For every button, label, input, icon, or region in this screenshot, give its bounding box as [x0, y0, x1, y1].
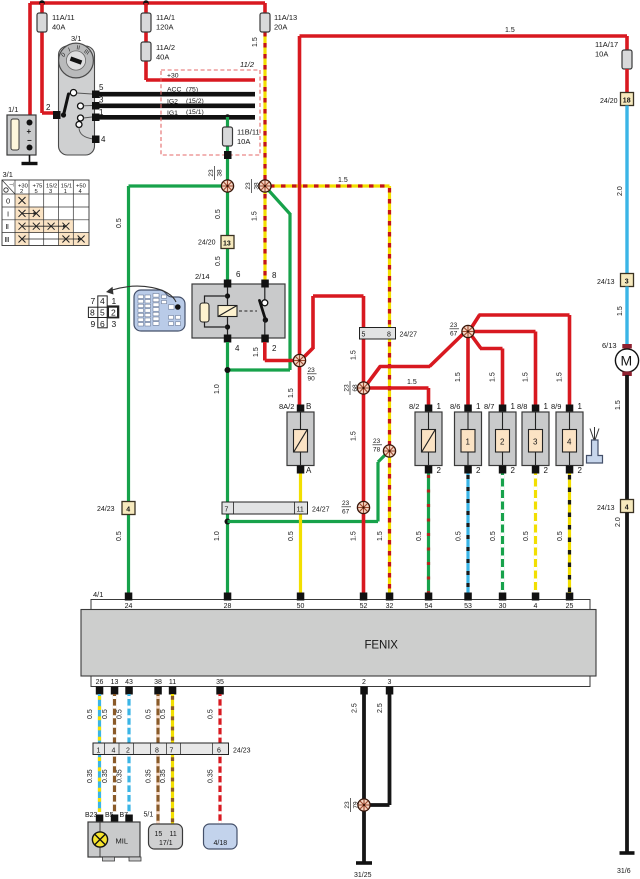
- FENIX bottom pin 43: [125, 679, 133, 695]
- svg-text:3: 3: [625, 279, 629, 286]
- svg-text:2: 2: [126, 748, 130, 755]
- svg-text:0.35: 0.35: [102, 769, 109, 783]
- injector 8/9 cyl 4: [551, 402, 583, 475]
- svg-text:23: 23: [344, 384, 351, 392]
- wire: fuse 11A/17 to connector 24/20-18 (red): [625, 69, 629, 92]
- connector 17/1: [144, 812, 183, 850]
- table 3/1: [2, 170, 89, 246]
- injector 8/6 cyl 1: [450, 402, 482, 475]
- svg-text:2: 2: [111, 308, 116, 318]
- switch pin 5: [92, 83, 104, 98]
- svg-text:13: 13: [223, 241, 231, 248]
- splice 23/38 left: [208, 166, 234, 192]
- fuse box pictogram (relay location): [134, 290, 185, 331]
- svg-text:2.0: 2.0: [615, 517, 622, 527]
- component 4/18: [204, 824, 238, 849]
- svg-text:3/1: 3/1: [71, 34, 81, 43]
- svg-text:68: 68: [352, 384, 359, 392]
- svg-text:23: 23: [342, 500, 350, 507]
- wire: yellow/white stripe injector 8/8 pin2 to FENIX 4: [523, 474, 536, 594]
- svg-text:1: 1: [437, 402, 442, 411]
- wire: red main from rail down to splice 23/90: [298, 36, 302, 355]
- connector 24/20 pin 18: [600, 93, 634, 106]
- svg-text:13: 13: [111, 679, 119, 686]
- svg-text:0.35: 0.35: [87, 769, 94, 783]
- svg-text:1.5: 1.5: [288, 388, 295, 398]
- motor M 6/13: [602, 341, 639, 376]
- svg-text:1: 1: [466, 438, 471, 447]
- wire: green relay pin 4 to FENIX pin 28: [214, 342, 228, 593]
- svg-text:3: 3: [533, 438, 538, 447]
- wire: red splice 23/68 to injector 8/2 pin 1: [370, 379, 429, 405]
- svg-text:35: 35: [216, 679, 224, 686]
- svg-text:11A/17: 11A/17: [595, 40, 618, 49]
- svg-text:1.5: 1.5: [377, 531, 384, 541]
- wire: red relay pin 2 to splice 23/90: [253, 342, 294, 361]
- wire: cyan 2.0 down to 24/13-3: [617, 106, 627, 275]
- svg-text:0.5: 0.5: [523, 531, 530, 541]
- svg-text:1.5: 1.5: [557, 372, 564, 382]
- svg-text:2: 2: [272, 344, 277, 353]
- ground at battery: [22, 155, 38, 164]
- svg-text:1.5: 1.5: [505, 27, 515, 34]
- svg-text:2: 2: [500, 438, 505, 447]
- wire: red/white FENIX 35 to 4/18: [208, 694, 221, 823]
- svg-text:1.5: 1.5: [338, 177, 348, 184]
- svg-text:31/25: 31/25: [354, 872, 372, 879]
- wire: red splice 23/67 branch to injector 8/7: [472, 336, 503, 406]
- switch pin 3: [92, 96, 104, 110]
- svg-text:31/6: 31/6: [617, 868, 631, 875]
- svg-text:8: 8: [90, 308, 95, 318]
- svg-text:1.5: 1.5: [523, 372, 530, 382]
- svg-text:1: 1: [476, 402, 481, 411]
- svg-text:5/1: 5/1: [144, 812, 154, 819]
- svg-text:24/23: 24/23: [97, 506, 115, 513]
- relay pin 4: [224, 335, 240, 354]
- relay internals: coil branch: [200, 287, 257, 335]
- svg-text:3: 3: [112, 319, 117, 329]
- svg-text:⊣: ⊣: [9, 182, 14, 189]
- splice 23/38 right: [245, 179, 271, 193]
- svg-text:10A: 10A: [595, 50, 608, 59]
- svg-text:24/20: 24/20: [600, 98, 618, 105]
- svg-text:6/13: 6/13: [602, 341, 617, 350]
- svg-text:0.5: 0.5: [87, 709, 94, 719]
- svg-text:IG2: IG2: [167, 98, 178, 105]
- svg-text:24/13: 24/13: [597, 279, 615, 286]
- svg-text:3: 3: [99, 96, 104, 105]
- FENIX top pin 53: [464, 593, 472, 611]
- svg-text:43: 43: [125, 679, 133, 686]
- FENIX top pin 54: [425, 593, 433, 611]
- relay pin 8: [261, 271, 277, 288]
- svg-text:4: 4: [625, 505, 629, 512]
- svg-text:III: III: [5, 235, 10, 244]
- relay pin 2: [261, 335, 277, 354]
- svg-text:38: 38: [154, 679, 162, 686]
- wire: red splice 23/68 diagonal to splice 23/67: [368, 334, 464, 384]
- svg-text:53: 53: [464, 603, 472, 610]
- svg-text:79: 79: [353, 801, 360, 809]
- wire: black FENIX 3 to splice 23/79: [370, 694, 390, 805]
- svg-text:54: 54: [425, 603, 433, 610]
- svg-text:2.5: 2.5: [352, 703, 359, 713]
- svg-text:2: 2: [437, 466, 442, 475]
- table X marks row III with link arrow: [19, 236, 85, 243]
- svg-text:38: 38: [254, 182, 261, 190]
- svg-text:26: 26: [96, 679, 104, 686]
- svg-text:3: 3: [388, 679, 392, 686]
- wire: green branch from splice 23/38 to relay output net: [228, 189, 291, 371]
- relay 2/14: [192, 272, 285, 338]
- svg-text:1: 1: [544, 402, 549, 411]
- svg-text:30: 30: [499, 603, 507, 610]
- wire: red connector 5 down to splice 23/68: [351, 339, 364, 383]
- svg-text:11: 11: [169, 679, 176, 686]
- svg-text:2: 2: [362, 679, 366, 686]
- table X marks row I with link arrow: [19, 210, 40, 217]
- svg-text:11A/2: 11A/2: [156, 43, 175, 52]
- svg-text:23: 23: [373, 438, 381, 445]
- ECU 4/1 FENIX: [81, 590, 596, 687]
- svg-text:4/18: 4/18: [214, 840, 228, 847]
- wire: red splice 23/90 down to 8A/2 pin B: [288, 366, 300, 405]
- svg-text:0.5: 0.5: [456, 531, 463, 541]
- wire: green from splice 23/38 to relay pin 6: [215, 192, 228, 280]
- connector 24/23 pin 4 (left green wire): [97, 502, 135, 515]
- FENIX bottom pin 13: [111, 679, 119, 695]
- FENIX top pin 52: [360, 593, 368, 611]
- net label IG1 (15/1): [167, 109, 204, 117]
- svg-text:+: +: [27, 127, 32, 136]
- FENIX bottom pin 3: [386, 679, 394, 695]
- FENIX bottom pin 11: [169, 679, 177, 695]
- svg-text:1.5: 1.5: [351, 350, 358, 360]
- relay location pin grid 7-4-1/8-5-2/9-6-3: [88, 296, 118, 329]
- svg-text:40A: 40A: [52, 23, 65, 32]
- svg-text:8/8: 8/8: [517, 402, 527, 411]
- svg-text:4: 4: [567, 438, 572, 447]
- injector 8/7 cyl 2: [484, 402, 516, 475]
- svg-text:67: 67: [450, 331, 458, 338]
- svg-text:0.35: 0.35: [160, 769, 167, 783]
- FENIX top pin 32: [386, 593, 394, 611]
- svg-text:4: 4: [101, 135, 106, 144]
- svg-text:23: 23: [245, 182, 252, 190]
- svg-text:2.0: 2.0: [617, 186, 624, 196]
- svg-text:8: 8: [272, 271, 277, 280]
- svg-text:17/1: 17/1: [159, 840, 173, 847]
- svg-text:+30: +30: [167, 73, 179, 80]
- svg-text:24/27: 24/27: [400, 332, 418, 339]
- svg-text:2: 2: [20, 189, 23, 195]
- connector 24/13 pin 4: [597, 500, 634, 513]
- svg-text:0.5: 0.5: [208, 709, 215, 719]
- connector stub at dashed box edge: [224, 151, 232, 159]
- wire: red splice 23/67 branch to injector 8/9: [472, 315, 570, 405]
- svg-text:11: 11: [297, 507, 304, 514]
- svg-text:0.5: 0.5: [116, 218, 123, 228]
- svg-text:8/9: 8/9: [551, 402, 561, 411]
- fuse 11A/13 20A: [260, 13, 297, 32]
- svg-text:11A/11: 11A/11: [52, 13, 75, 22]
- wire: yellow/black stripe injector 8/9 pin2 to FENIX 25: [557, 474, 570, 594]
- svg-text:1.5: 1.5: [490, 372, 497, 382]
- FENIX bottom pin 26: [96, 679, 104, 695]
- svg-text:−: −: [27, 136, 32, 145]
- wire: ACC (75) heavy black: [99, 92, 255, 97]
- svg-text:2: 2: [511, 466, 516, 475]
- svg-text:32: 32: [386, 603, 394, 610]
- svg-text:2/14: 2/14: [195, 272, 210, 281]
- wire: IG2 (15/2) heavy black: [99, 104, 255, 109]
- svg-text:4: 4: [112, 748, 116, 755]
- fuse 11A/11 40A: [37, 13, 75, 32]
- wire: yellow/red striped from fuse 11A/13 down to splice: [252, 32, 265, 186]
- svg-text:8A/2: 8A/2: [279, 402, 294, 411]
- svg-text:0.5: 0.5: [117, 709, 124, 719]
- svg-text:2: 2: [476, 466, 481, 475]
- fuse 11A/1 120A: [141, 13, 175, 32]
- switch pin 4: [92, 135, 106, 144]
- svg-text:5: 5: [362, 332, 366, 339]
- svg-text:1: 1: [97, 748, 101, 755]
- svg-text:0.5: 0.5: [102, 709, 109, 719]
- net label IG2 (15/2): [167, 98, 204, 106]
- svg-text:1: 1: [112, 296, 117, 306]
- node: junction green at relay output: [225, 367, 231, 373]
- svg-text:0.5: 0.5: [116, 531, 123, 541]
- wire: green/red stripe injector 8/2 pin2 to FENIX 54: [416, 474, 429, 594]
- table X marks row 0: [19, 197, 26, 204]
- FENIX top pin 28: [224, 593, 232, 611]
- svg-text:23: 23: [450, 322, 458, 329]
- svg-text:1.5: 1.5: [253, 347, 260, 357]
- relay pin 6: [224, 270, 241, 288]
- svg-text:B23: B23: [85, 812, 98, 819]
- MIL lamp symbol: [92, 832, 128, 847]
- svg-text:(15/2): (15/2): [186, 98, 204, 105]
- svg-text:23: 23: [208, 169, 215, 177]
- wire: fuse 11A/1 to fuse 11A/2 to +30 (red): [146, 3, 255, 80]
- FENIX top pin 50: [297, 593, 305, 611]
- wire: yellow/red striped splice to FENIX pin 32 (horizontal): [268, 177, 390, 186]
- splice 23/67 lower: [342, 500, 370, 516]
- svg-text:A: A: [306, 466, 312, 475]
- svg-text:ACC: ACC: [167, 87, 181, 94]
- injector 8/8 cyl 3: [517, 402, 549, 475]
- wire: green junction to splice 23/78: [228, 453, 388, 522]
- svg-text:52: 52: [360, 603, 368, 610]
- wire: yellow/red striped down to FENIX 32 through splice 23/78: [377, 186, 390, 593]
- switch internal lever and contacts: [61, 90, 93, 140]
- svg-text:1: 1: [511, 402, 516, 411]
- wire: IG1 to fuse 11B/11 (green): [226, 117, 229, 186]
- wire: cyan/white FENIX 43 to MIL B7: [117, 694, 130, 812]
- svg-text:1/1: 1/1: [8, 105, 18, 114]
- svg-text:FENIX: FENIX: [365, 640, 399, 652]
- relay internals: switch contact: [260, 287, 269, 335]
- wire: black 2.0 down to ground 31/6: [615, 513, 627, 853]
- wire: red splice 23/67 branch to injector 8/8: [474, 332, 536, 406]
- svg-text:B: B: [306, 402, 311, 411]
- switch pin 2: [46, 103, 61, 119]
- table X marks row II with link arrow: [19, 223, 70, 230]
- svg-text:0.35: 0.35: [117, 769, 124, 783]
- svg-text:1.5: 1.5: [455, 372, 462, 382]
- svg-text:24/13: 24/13: [597, 505, 615, 512]
- svg-text:15: 15: [155, 831, 163, 838]
- FENIX top pin 4: [532, 593, 540, 611]
- svg-text:1: 1: [64, 189, 67, 195]
- svg-text:0.5: 0.5: [416, 531, 423, 541]
- svg-text:IG1: IG1: [167, 110, 178, 117]
- svg-text:0.5: 0.5: [160, 709, 167, 719]
- FENIX bottom pin 38: [154, 679, 162, 695]
- vent symbol beside 8/9: [587, 427, 603, 463]
- svg-text:0.5: 0.5: [490, 531, 497, 541]
- svg-text:9: 9: [91, 319, 96, 329]
- wire: red splice 23/67 branch to injector 8/6: [455, 337, 468, 405]
- svg-text:5: 5: [35, 189, 38, 195]
- svg-text:28: 28: [224, 603, 232, 610]
- svg-text:0.35: 0.35: [208, 769, 215, 783]
- svg-text:8/2: 8/2: [409, 402, 419, 411]
- svg-text:67: 67: [342, 509, 350, 516]
- FENIX bottom pin 35: [216, 679, 224, 695]
- splice 23/78: [373, 438, 396, 457]
- svg-text:4: 4: [100, 296, 105, 306]
- svg-text:11: 11: [170, 831, 177, 838]
- svg-text:1: 1: [578, 402, 583, 411]
- svg-text:7: 7: [170, 748, 174, 755]
- ground 31/6: [617, 853, 635, 875]
- svg-text:(75): (75): [186, 87, 198, 94]
- wire: fuse 11A/11 to ignition switch pin 2 (red): [42, 3, 54, 113]
- svg-text:5: 5: [99, 83, 104, 92]
- svg-text:11A/13: 11A/13: [274, 13, 297, 22]
- svg-text:120A: 120A: [156, 23, 174, 32]
- wire: brown/white FENIX 13 to MIL B5: [102, 694, 115, 812]
- dashed boundary box 11/2: [161, 60, 260, 155]
- connector 24/27 pins 5/8: [360, 328, 418, 340]
- svg-text:40A: 40A: [156, 53, 169, 62]
- wire: green/white stripe injector 8/7 pin2 to FENIX 30: [490, 474, 503, 594]
- svg-text:25: 25: [566, 603, 574, 610]
- splice 23/67 upper: [450, 322, 475, 338]
- node: junction on rail above fuse 11A/1: [143, 0, 149, 6]
- svg-text:90: 90: [308, 376, 316, 383]
- svg-text:0.5: 0.5: [146, 709, 153, 719]
- node: junction green below connector 24/27: [225, 519, 231, 525]
- wire: yellow 8A/2 pin A to FENIX 50: [288, 474, 301, 594]
- svg-text:8/6: 8/6: [450, 402, 460, 411]
- node: junction on IG1 line: [225, 114, 231, 120]
- splice 23/68: [344, 381, 370, 395]
- wire: yellow/brown FENIX 11 to 17/1 pin 11: [160, 694, 173, 824]
- svg-text:1.5: 1.5: [351, 431, 358, 441]
- svg-text:24/20: 24/20: [198, 240, 216, 247]
- svg-text:11/2: 11/2: [240, 60, 255, 69]
- wire: battery feed rail (red): [30, 3, 265, 115]
- connector 24/13 pin 3: [597, 274, 634, 287]
- connector 24/23 strip: [93, 743, 251, 755]
- splice 23/79: [344, 798, 370, 812]
- svg-text:10A: 10A: [237, 137, 250, 146]
- wire: brown/white FENIX 38 to 17/1 pin 15: [146, 694, 159, 824]
- FENIX top pin 24: [125, 593, 133, 611]
- svg-text:M: M: [621, 353, 633, 369]
- svg-text:2: 2: [46, 103, 51, 112]
- svg-text:18: 18: [623, 98, 631, 105]
- svg-text:1.5: 1.5: [617, 306, 624, 316]
- svg-text:5: 5: [100, 308, 105, 318]
- connector 24/20 pin 13: [198, 236, 234, 249]
- FENIX bottom pin 2: [360, 679, 368, 695]
- splice 23/90: [293, 354, 316, 382]
- svg-text:24: 24: [125, 603, 133, 610]
- svg-text:1.5: 1.5: [407, 379, 417, 386]
- switch pin 1: [92, 108, 104, 121]
- MIL warning lamp unit: [85, 812, 141, 861]
- svg-text:6: 6: [236, 270, 241, 279]
- svg-text:1.5: 1.5: [615, 400, 622, 410]
- svg-text:1.5: 1.5: [252, 211, 259, 221]
- battery 1/1: [7, 105, 36, 155]
- svg-text:0.35: 0.35: [146, 769, 153, 783]
- svg-text:MIL: MIL: [116, 837, 129, 846]
- wire: black 1.5 from motor down: [615, 375, 627, 500]
- svg-text:11A/1: 11A/1: [156, 13, 175, 22]
- svg-text:23: 23: [308, 367, 316, 374]
- svg-text:7: 7: [225, 507, 229, 514]
- fuse 11A/17 10A: [595, 40, 632, 69]
- node: junction on rail above fuse 11A/11: [39, 0, 45, 6]
- svg-text:1.5: 1.5: [252, 37, 259, 47]
- svg-text:3: 3: [49, 189, 52, 195]
- arrow from fuse box dot to pin grid: [106, 286, 176, 302]
- svg-text:2.5: 2.5: [377, 703, 384, 713]
- svg-text:38: 38: [217, 169, 224, 177]
- svg-text:I: I: [7, 209, 9, 218]
- wire: cyan 1.5 down to motor: [617, 287, 627, 346]
- svg-text:8: 8: [387, 332, 391, 339]
- svg-text:4: 4: [235, 344, 240, 353]
- svg-text:23: 23: [344, 801, 351, 809]
- FENIX top pin 25: [566, 593, 574, 611]
- svg-text:2: 2: [544, 466, 549, 475]
- svg-text:0: 0: [6, 197, 10, 206]
- svg-text:4: 4: [126, 507, 130, 514]
- svg-text:2: 2: [578, 466, 583, 475]
- svg-text:4/1: 4/1: [93, 590, 103, 599]
- svg-text:50: 50: [297, 603, 305, 610]
- svg-text:6: 6: [217, 748, 221, 755]
- svg-text:3/1: 3/1: [3, 170, 13, 179]
- wire: cyan/black stripe injector 8/6 pin2 to FENIX 53: [456, 474, 469, 594]
- svg-text:24/23: 24/23: [233, 748, 251, 755]
- svg-text:(15/1): (15/1): [186, 109, 204, 116]
- injector 8/2 (resistor pack): [409, 402, 442, 475]
- svg-text:8: 8: [155, 748, 159, 755]
- svg-text:8/7: 8/7: [484, 402, 494, 411]
- svg-text:24/27: 24/27: [312, 507, 330, 514]
- resistor 8A/2: [279, 402, 314, 475]
- fuse 11B/11 10A: [223, 127, 260, 146]
- net label ACC (75): [167, 87, 198, 94]
- svg-text:11B/11: 11B/11: [237, 128, 260, 137]
